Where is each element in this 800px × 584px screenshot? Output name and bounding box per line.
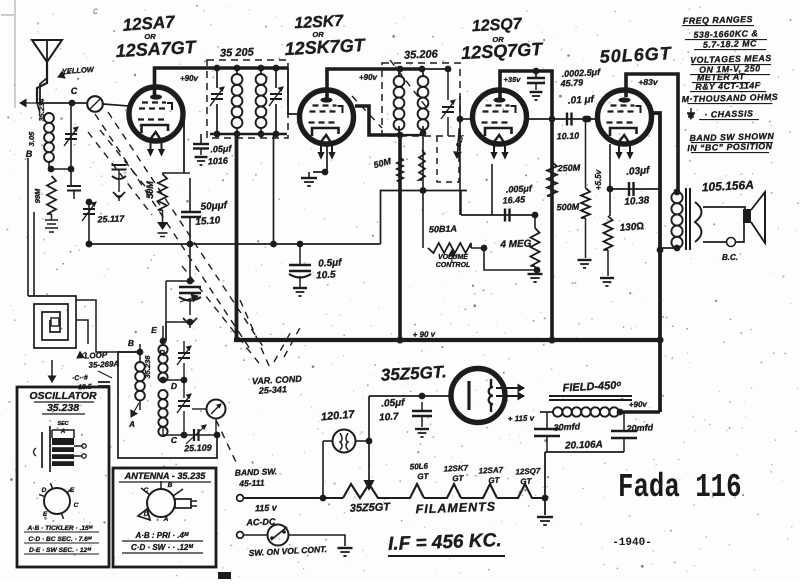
svg-text:C: C	[71, 86, 78, 96]
svg-text:·C··#: ·C··#	[72, 375, 88, 383]
svg-text:C: C	[144, 487, 149, 494]
svg-text:5.7-18.2 MC: 5.7-18.2 MC	[703, 38, 757, 49]
svg-text:25.109: 25.109	[183, 443, 212, 454]
svg-text:B: B	[128, 338, 134, 348]
svg-text:10.10: 10.10	[556, 131, 579, 142]
svg-text:35Z5GT: 35Z5GT	[350, 501, 392, 514]
svg-text:C: C	[171, 435, 178, 445]
svg-text:GT: GT	[488, 476, 501, 486]
svg-text:50L6: 50L6	[410, 462, 429, 472]
svg-text:15.10: 15.10	[195, 215, 221, 228]
svg-text:A: A	[163, 516, 169, 523]
svg-text:OSCILLATOR: OSCILLATOR	[29, 390, 97, 402]
svg-text:50M: 50M	[145, 181, 155, 199]
svg-text:35.236: 35.236	[143, 355, 152, 379]
svg-text:E: E	[70, 487, 75, 494]
svg-text:10.5: 10.5	[316, 269, 336, 281]
svg-text:105.156A: 105.156A	[701, 178, 754, 195]
svg-text:19.5: 19.5	[78, 384, 92, 392]
svg-text:.05μf: .05μf	[210, 143, 232, 154]
svg-text:25-341: 25-341	[258, 384, 288, 396]
svg-text:R&Y 4CT-114F: R&Y 4CT-114F	[695, 80, 761, 92]
svg-text:50L6GT: 50L6GT	[599, 43, 673, 67]
svg-text:12SQ7: 12SQ7	[515, 466, 541, 476]
svg-text:+5.5v: +5.5v	[594, 169, 603, 190]
svg-text:A·B · TICKLER · .15ᴹ: A·B · TICKLER · .15ᴹ	[27, 525, 94, 532]
svg-text:BAND SW.: BAND SW.	[235, 466, 278, 477]
svg-text:E: E	[151, 325, 157, 335]
svg-text:16.45: 16.45	[502, 194, 526, 205]
svg-text:250M: 250M	[556, 163, 580, 174]
svg-text:10.38: 10.38	[624, 195, 650, 208]
svg-text:115 v: 115 v	[255, 503, 278, 514]
svg-text:C: C	[74, 502, 79, 509]
svg-text:+ 115 v: + 115 v	[508, 414, 535, 424]
svg-text:.03μf: .03μf	[626, 165, 652, 178]
svg-text:B: B	[26, 149, 33, 159]
svg-text:25.117: 25.117	[96, 214, 125, 225]
svg-text:A: A	[60, 429, 65, 435]
svg-text:D: D	[171, 381, 177, 391]
svg-text:ANTENNA - 35.235: ANTENNA - 35.235	[124, 471, 207, 481]
svg-text:35.206: 35.206	[404, 48, 439, 61]
svg-text:35Z5GT.: 35Z5GT.	[380, 362, 447, 384]
svg-text:1016: 1016	[208, 155, 230, 166]
svg-text:Fada 116: Fada 116	[618, 468, 742, 506]
svg-text:B: B	[168, 482, 173, 489]
svg-text:FILAMENTS: FILAMENTS	[415, 500, 496, 517]
svg-text:-1940-: -1940-	[612, 537, 652, 549]
svg-text:+83v: +83v	[638, 77, 658, 87]
svg-text:30mfd: 30mfd	[553, 421, 580, 432]
svg-text:I.F = 456 KC.: I.F = 456 KC.	[388, 530, 502, 555]
svg-text:AC-DC: AC-DC	[245, 516, 276, 527]
svg-text:GT: GT	[452, 474, 465, 484]
svg-text:0.5μf: 0.5μf	[318, 257, 343, 269]
svg-text:· CHASSIS: · CHASSIS	[704, 108, 753, 119]
svg-text:D: D	[42, 487, 47, 494]
svg-text:20mfd: 20mfd	[625, 422, 653, 433]
svg-text:4 MEG: 4 MEG	[499, 238, 532, 250]
svg-text:VOLUME: VOLUME	[438, 254, 468, 261]
svg-text:10.7: 10.7	[379, 411, 399, 423]
svg-text:+35v: +35v	[504, 75, 522, 84]
svg-text:35 205: 35 205	[220, 46, 255, 59]
svg-text:12SK7: 12SK7	[443, 463, 468, 473]
svg-text:C·D · SW · · .12ᴹ: C·D · SW · · .12ᴹ	[131, 543, 193, 552]
svg-text:12SQ7: 12SQ7	[471, 16, 523, 36]
svg-text:3.05: 3.05	[27, 131, 36, 146]
svg-text:35-269A: 35-269A	[88, 359, 119, 370]
svg-text:.005μf: .005μf	[506, 183, 533, 194]
svg-text:FREQ RANGES: FREQ RANGES	[683, 14, 753, 26]
svg-text:+90v: +90v	[359, 73, 378, 82]
svg-text:GT: GT	[417, 472, 430, 482]
svg-text:500M: 500M	[556, 202, 579, 213]
svg-text:D·E · SW SEC. · 12ᴹ: D·E · SW SEC. · 12ᴹ	[29, 547, 92, 554]
svg-text:+90v: +90v	[180, 74, 199, 83]
svg-text:20.106A: 20.106A	[564, 439, 603, 451]
svg-text:35.238: 35.238	[47, 402, 79, 414]
svg-text:A: A	[128, 420, 135, 429]
svg-text:D: D	[144, 511, 149, 518]
svg-text:B.C.: B.C.	[722, 253, 738, 262]
svg-text:SEC: SEC	[57, 421, 69, 427]
svg-text:R: R	[159, 349, 165, 358]
svg-text:12SA7: 12SA7	[478, 465, 503, 475]
svg-text:CONTROL: CONTROL	[436, 262, 471, 269]
svg-text:A·B : PRI · .4ᴹ: A·B : PRI · .4ᴹ	[134, 531, 188, 540]
svg-text:C·D · BC SEC. · 7.6ᴹ: C·D · BC SEC. · 7.6ᴹ	[28, 536, 92, 543]
svg-text:c: c	[93, 6, 98, 17]
svg-text:50μμf: 50μμf	[200, 200, 229, 213]
svg-text:.01 μf: .01 μf	[568, 94, 596, 106]
svg-text:45-111: 45-111	[238, 478, 265, 489]
svg-text:50B1A: 50B1A	[429, 224, 457, 235]
svg-text:GT: GT	[520, 477, 533, 487]
svg-text:.05μf: .05μf	[381, 397, 406, 409]
svg-text:99M: 99M	[33, 188, 42, 203]
svg-text:130Ω: 130Ω	[619, 221, 644, 234]
svg-text:+90v: +90v	[629, 400, 648, 410]
svg-text:35.234: 35.234	[37, 98, 46, 122]
svg-text:E: E	[43, 511, 48, 518]
svg-text:+ 90 v: + 90 v	[413, 330, 436, 340]
svg-text:45.79: 45.79	[559, 77, 583, 88]
